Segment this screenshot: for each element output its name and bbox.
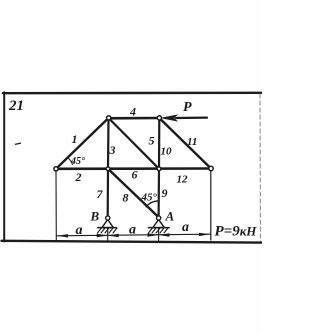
dimension line with arrows xyxy=(57,234,211,236)
svg-text:A: A xyxy=(165,209,175,224)
node T1 circle xyxy=(107,116,111,120)
node N2 circle xyxy=(157,167,161,171)
svg-text:11: 11 xyxy=(187,136,197,148)
45 degree arc at node L xyxy=(68,158,73,165)
node N1 circle xyxy=(106,167,110,171)
support A base line xyxy=(148,227,169,229)
member 11 (T2 to R) xyxy=(159,118,211,169)
svg-text:8: 8 xyxy=(123,191,129,205)
member 9 (N2 to support A) xyxy=(158,169,161,217)
svg-text:5: 5 xyxy=(149,134,155,148)
support A pin triangle xyxy=(153,220,164,228)
svg-text:9: 9 xyxy=(162,186,168,200)
svg-text:1: 1 xyxy=(72,132,78,146)
member 5 (T1 to N2) xyxy=(109,118,160,169)
svg-text:10: 10 xyxy=(161,146,173,158)
support B center line xyxy=(107,228,109,241)
member 2 + 6 + 12 bottom chord (L to R) xyxy=(56,167,211,170)
svg-text:45°: 45° xyxy=(141,192,158,204)
45 degree arc at support A xyxy=(146,201,158,207)
svg-text:2: 2 xyxy=(75,170,82,184)
force P arrow xyxy=(176,116,207,119)
svg-text:6: 6 xyxy=(132,168,138,182)
svg-text:a: a xyxy=(182,220,189,235)
svg-text:3: 3 xyxy=(109,143,116,157)
node L circle xyxy=(54,167,58,171)
svg-text:45°: 45° xyxy=(70,156,85,167)
support A center line xyxy=(158,228,160,241)
support B hatching xyxy=(98,228,118,233)
frame left border xyxy=(3,92,5,241)
member 8 (N1 to support A) xyxy=(108,169,158,217)
support B pin triangle xyxy=(102,220,113,228)
extension line below node R xyxy=(210,171,212,240)
svg-text:B: B xyxy=(90,209,100,224)
frame bottom border xyxy=(2,241,263,243)
node T2 circle xyxy=(157,116,161,120)
member 10 (T2 to N2) xyxy=(158,118,161,169)
member 1 (L to T1) xyxy=(56,118,109,169)
support B base line xyxy=(98,227,117,229)
svg-text:7: 7 xyxy=(97,187,104,201)
member 7 (N1 to support B) xyxy=(107,169,110,217)
stray dash mark xyxy=(16,143,21,144)
support A hatching xyxy=(148,228,168,233)
svg-text:4: 4 xyxy=(129,105,136,119)
svg-text:P: P xyxy=(183,100,192,115)
svg-text:12: 12 xyxy=(177,174,189,186)
node R circle xyxy=(209,166,213,170)
frame top border xyxy=(3,92,262,95)
svg-text:P=9кН: P=9кН xyxy=(215,224,258,240)
extension line below node L xyxy=(55,172,57,240)
svg-text:a: a xyxy=(76,223,83,238)
svg-text:21: 21 xyxy=(8,98,24,114)
frame right border (faint) xyxy=(259,94,262,241)
member 4 top chord (T1 to T2) xyxy=(109,117,160,120)
member 3 (T1 to N1) xyxy=(107,118,110,169)
svg-text:a: a xyxy=(129,223,136,238)
